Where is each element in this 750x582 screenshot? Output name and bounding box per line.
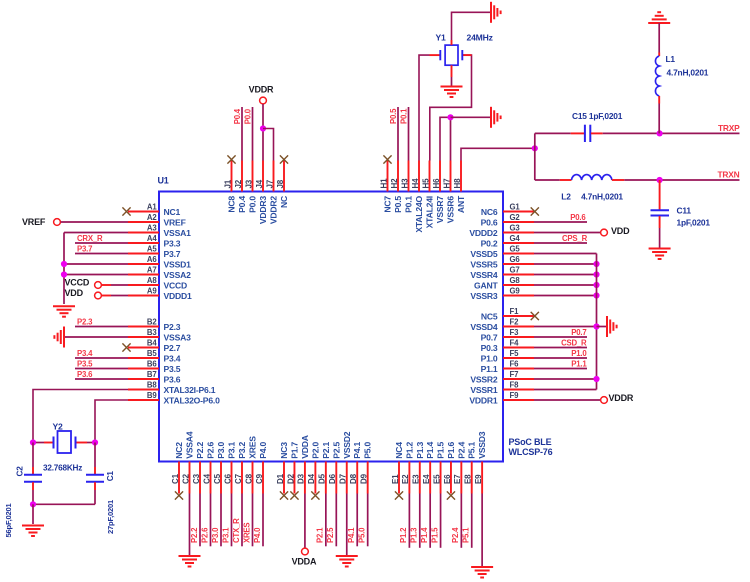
svg-text:H1: H1 [379, 178, 388, 189]
svg-text:D2: D2 [286, 473, 295, 484]
svg-text:E3: E3 [412, 474, 421, 484]
svg-text:P2.1: P2.1 [316, 527, 325, 543]
svg-text:P5.1: P5.1 [462, 527, 471, 543]
svg-text:P0.4: P0.4 [233, 108, 242, 124]
svg-text:P2.2: P2.2 [190, 527, 199, 543]
svg-text:VDD: VDD [611, 226, 630, 236]
svg-text:D8: D8 [349, 473, 358, 484]
svg-text:C2: C2 [16, 466, 25, 477]
svg-text:WLCSP-76: WLCSP-76 [509, 447, 553, 457]
svg-text:H4: H4 [411, 178, 420, 189]
svg-text:P1.2: P1.2 [404, 442, 414, 459]
svg-text:VSSA1: VSSA1 [164, 228, 192, 238]
svg-text:VSSR2: VSSR2 [470, 374, 498, 384]
svg-text:F6: F6 [510, 360, 520, 369]
svg-text:VDDR: VDDR [609, 393, 634, 403]
svg-text:P1.1: P1.1 [571, 359, 587, 368]
svg-text:VSSD3: VSSD3 [477, 431, 487, 459]
svg-text:24MHz: 24MHz [467, 33, 493, 43]
svg-text:C1: C1 [171, 473, 180, 484]
svg-text:P2.5: P2.5 [331, 442, 341, 459]
svg-text:J4: J4 [255, 179, 264, 188]
svg-text:C7: C7 [234, 473, 243, 484]
svg-text:NC1: NC1 [164, 207, 181, 217]
svg-text:NC: NC [279, 196, 289, 208]
svg-text:Y1: Y1 [436, 33, 447, 43]
svg-text:VSSD5: VSSD5 [470, 249, 498, 259]
svg-text:P3.0: P3.0 [211, 527, 220, 543]
svg-text:A8: A8 [147, 276, 157, 285]
svg-text:D3: D3 [297, 473, 306, 484]
svg-text:XRES: XRES [242, 523, 251, 543]
svg-text:P3.6: P3.6 [164, 374, 181, 384]
svg-text:J8: J8 [276, 179, 285, 188]
svg-text:G8: G8 [510, 276, 521, 285]
svg-text:G6: G6 [510, 255, 521, 264]
svg-text:C8: C8 [244, 473, 253, 484]
svg-text:B2: B2 [147, 318, 157, 327]
svg-text:E7: E7 [453, 474, 462, 484]
svg-text:VSSA2: VSSA2 [164, 270, 192, 280]
svg-text:XRES: XRES [248, 436, 258, 459]
svg-text:P1.3: P1.3 [410, 527, 419, 543]
svg-text:B8: B8 [147, 381, 157, 390]
svg-text:F1: F1 [510, 307, 520, 316]
svg-text:C1: C1 [106, 471, 115, 482]
svg-text:C4: C4 [202, 473, 211, 484]
svg-text:NC6: NC6 [481, 207, 498, 217]
svg-text:CSD_R: CSD_R [561, 338, 587, 347]
svg-text:G7: G7 [510, 266, 520, 275]
svg-text:P2.4: P2.4 [456, 442, 466, 459]
svg-text:P0.7: P0.7 [571, 328, 586, 337]
svg-text:L2: L2 [561, 191, 571, 201]
svg-text:J2: J2 [234, 179, 243, 188]
svg-text:VSSD4: VSSD4 [470, 322, 498, 332]
svg-text:H7: H7 [442, 178, 451, 189]
svg-text:27pF,0201: 27pF,0201 [106, 499, 115, 534]
svg-text:P3.7: P3.7 [77, 244, 92, 253]
svg-text:F9: F9 [510, 391, 520, 400]
svg-text:P3.1: P3.1 [227, 442, 237, 459]
svg-text:P3.4: P3.4 [77, 349, 93, 358]
svg-text:F4: F4 [510, 339, 520, 348]
svg-text:P1.0: P1.0 [481, 353, 498, 363]
svg-text:1pF,0201: 1pF,0201 [677, 218, 711, 228]
svg-text:E4: E4 [422, 474, 431, 484]
svg-text:P0.0: P0.0 [248, 196, 258, 213]
svg-text:VDDR2: VDDR2 [269, 196, 279, 225]
svg-text:XTAL32I-P6.1: XTAL32I-P6.1 [164, 385, 216, 395]
svg-text:J3: J3 [244, 179, 253, 188]
svg-text:P2.3: P2.3 [77, 317, 93, 326]
svg-text:P3.6: P3.6 [77, 370, 93, 379]
svg-text:32.768KHz: 32.768KHz [43, 464, 82, 473]
svg-text:4.7nH,0201: 4.7nH,0201 [667, 68, 709, 78]
svg-text:D4: D4 [307, 473, 316, 484]
svg-text:NC2: NC2 [174, 442, 184, 459]
svg-text:CTX_R: CTX_R [232, 518, 241, 543]
svg-text:P0.4: P0.4 [237, 196, 247, 213]
svg-text:P5.1: P5.1 [467, 442, 477, 459]
svg-text:4.7nH,0201: 4.7nH,0201 [581, 191, 623, 201]
svg-text:P0.5: P0.5 [393, 196, 403, 213]
svg-text:P5.0: P5.0 [357, 527, 366, 543]
svg-text:B9: B9 [147, 391, 157, 400]
svg-text:NC5: NC5 [481, 311, 498, 321]
svg-text:B5: B5 [147, 349, 157, 358]
svg-text:P0.6: P0.6 [570, 213, 586, 222]
svg-text:H3: H3 [400, 178, 409, 189]
svg-text:P3.0: P3.0 [216, 442, 226, 459]
svg-text:A1: A1 [147, 203, 157, 212]
svg-text:A5: A5 [147, 245, 157, 254]
svg-text:P2.1: P2.1 [321, 442, 331, 459]
svg-text:P4.1: P4.1 [347, 527, 356, 543]
svg-text:P0.5: P0.5 [389, 108, 398, 124]
svg-text:B7: B7 [147, 370, 157, 379]
svg-text:P0.3: P0.3 [481, 343, 498, 353]
svg-text:H6: H6 [432, 178, 441, 189]
svg-text:A2: A2 [147, 213, 157, 222]
svg-text:VREF: VREF [164, 217, 186, 227]
svg-text:P2.6: P2.6 [200, 527, 209, 543]
svg-text:C11: C11 [677, 206, 692, 216]
svg-text:C9: C9 [255, 473, 264, 484]
svg-text:H2: H2 [390, 178, 399, 189]
svg-text:P3.1: P3.1 [221, 527, 230, 543]
svg-text:G4: G4 [510, 234, 521, 243]
svg-text:P2.4: P2.4 [451, 527, 460, 543]
svg-text:VSSR6: VSSR6 [446, 196, 456, 224]
svg-text:VSSR4: VSSR4 [470, 270, 498, 280]
svg-text:F8: F8 [510, 381, 520, 390]
svg-text:D9: D9 [359, 473, 368, 484]
svg-text:CRX_R: CRX_R [77, 234, 103, 243]
svg-text:J1: J1 [223, 179, 232, 188]
svg-text:CPS_R: CPS_R [562, 234, 588, 243]
svg-text:P1.4: P1.4 [420, 527, 429, 543]
svg-text:VDDD1: VDDD1 [164, 291, 193, 301]
svg-text:J7: J7 [265, 179, 274, 188]
svg-text:56pF,0201: 56pF,0201 [4, 502, 13, 537]
svg-text:Y2: Y2 [53, 422, 64, 432]
svg-text:B6: B6 [147, 360, 157, 369]
svg-text:VDDA: VDDA [300, 435, 310, 459]
svg-text:VDDR1: VDDR1 [469, 395, 498, 405]
svg-text:PSoC BLE: PSoC BLE [509, 437, 552, 447]
svg-text:D1: D1 [276, 473, 285, 484]
svg-text:VDDD2: VDDD2 [469, 228, 498, 238]
svg-text:P5.0: P5.0 [363, 442, 373, 459]
svg-text:E1: E1 [391, 474, 400, 484]
svg-text:VSSR3: VSSR3 [470, 291, 498, 301]
svg-text:NC8: NC8 [227, 196, 237, 213]
svg-text:E2: E2 [401, 474, 410, 484]
svg-text:C5: C5 [213, 473, 222, 484]
svg-text:P3.7: P3.7 [164, 249, 181, 259]
svg-text:VSSR1: VSSR1 [470, 385, 498, 395]
svg-text:E5: E5 [432, 474, 441, 484]
svg-text:G1: G1 [510, 203, 521, 212]
svg-text:C6: C6 [223, 473, 232, 484]
svg-text:G2: G2 [510, 213, 521, 222]
svg-text:P4.0: P4.0 [258, 442, 268, 459]
svg-text:P3.3: P3.3 [164, 238, 181, 248]
svg-text:VCCD: VCCD [164, 280, 188, 290]
svg-text:P2.0: P2.0 [310, 442, 320, 459]
svg-text:VDDR3: VDDR3 [258, 196, 268, 225]
svg-text:P2.2: P2.2 [195, 442, 205, 459]
svg-text:XTAL32O-P6.0: XTAL32O-P6.0 [164, 395, 221, 405]
svg-text:U1: U1 [158, 176, 169, 186]
svg-text:P1.5: P1.5 [430, 527, 439, 543]
svg-text:VREF: VREF [22, 217, 46, 227]
svg-text:F2: F2 [510, 318, 520, 327]
svg-text:F3: F3 [510, 328, 520, 337]
svg-text:C3: C3 [192, 473, 201, 484]
svg-text:P2.7: P2.7 [164, 343, 181, 353]
svg-text:D7: D7 [339, 473, 348, 484]
svg-text:P1.7: P1.7 [289, 442, 299, 459]
svg-text:P0.1: P0.1 [399, 108, 408, 124]
svg-text:D6: D6 [328, 473, 337, 484]
svg-text:P1.4: P1.4 [425, 442, 435, 459]
svg-text:L1: L1 [666, 54, 676, 64]
svg-text:E8: E8 [464, 474, 473, 484]
svg-text:P1.2: P1.2 [399, 527, 408, 543]
svg-text:NC3: NC3 [279, 442, 289, 459]
svg-text:NC7: NC7 [383, 196, 393, 213]
svg-text:P2.5: P2.5 [326, 527, 335, 543]
svg-text:VSSA3: VSSA3 [164, 332, 192, 342]
svg-text:P1.5: P1.5 [436, 442, 446, 459]
svg-text:VSSD2: VSSD2 [342, 431, 352, 459]
svg-text:P1.6: P1.6 [446, 442, 456, 459]
svg-text:P0.6: P0.6 [481, 217, 498, 227]
svg-text:VCCD: VCCD [65, 277, 90, 287]
svg-text:C15 1pF,0201: C15 1pF,0201 [572, 111, 623, 121]
svg-text:ANT: ANT [456, 195, 466, 213]
svg-text:P4.0: P4.0 [253, 527, 262, 543]
svg-text:VDD: VDD [65, 288, 84, 298]
svg-text:A7: A7 [147, 266, 157, 275]
svg-text:G3: G3 [510, 224, 521, 233]
svg-text:E9: E9 [474, 474, 483, 484]
svg-text:P3.5: P3.5 [164, 364, 181, 374]
svg-text:VSSR7: VSSR7 [435, 196, 445, 224]
svg-text:B4: B4 [147, 339, 157, 348]
svg-text:P3.5: P3.5 [77, 359, 93, 368]
svg-text:A3: A3 [147, 224, 157, 233]
svg-text:A6: A6 [147, 255, 157, 264]
svg-text:P3.2: P3.2 [237, 442, 247, 459]
svg-text:VDDR: VDDR [249, 85, 274, 95]
svg-text:P1.3: P1.3 [415, 442, 425, 459]
svg-text:F5: F5 [510, 349, 520, 358]
svg-text:P2.6: P2.6 [206, 442, 216, 459]
svg-text:P3.4: P3.4 [164, 353, 181, 363]
svg-text:P0.7: P0.7 [481, 332, 498, 342]
svg-text:G9: G9 [510, 287, 521, 296]
svg-text:B3: B3 [147, 328, 157, 337]
svg-text:F7: F7 [510, 370, 519, 379]
svg-text:C2: C2 [181, 473, 190, 484]
svg-text:E6: E6 [443, 474, 452, 484]
svg-text:TRXN: TRXN [718, 170, 740, 180]
svg-text:P1.1: P1.1 [481, 364, 498, 374]
svg-text:H5: H5 [421, 178, 430, 189]
svg-text:VDDA: VDDA [292, 556, 317, 566]
svg-text:A4: A4 [147, 234, 157, 243]
svg-text:D5: D5 [318, 473, 327, 484]
svg-text:A9: A9 [147, 287, 157, 296]
svg-text:P0.0: P0.0 [243, 108, 252, 124]
svg-text:P0.1: P0.1 [404, 196, 414, 213]
svg-text:GANT: GANT [474, 280, 498, 290]
svg-text:TRXP: TRXP [718, 123, 740, 133]
svg-text:VSSA4: VSSA4 [185, 431, 195, 459]
svg-text:H8: H8 [453, 178, 462, 189]
svg-text:P0.2: P0.2 [481, 238, 498, 248]
svg-text:G5: G5 [510, 245, 521, 254]
svg-text:XTAL24I: XTAL24I [425, 196, 435, 228]
svg-text:P1.0: P1.0 [571, 349, 587, 358]
svg-text:XTAL24O: XTAL24O [414, 195, 424, 232]
svg-text:P2.3: P2.3 [164, 322, 181, 332]
svg-text:NC4: NC4 [394, 442, 404, 459]
svg-text:VSSD1: VSSD1 [164, 259, 192, 269]
svg-text:P4.1: P4.1 [352, 442, 362, 459]
svg-text:VSSR5: VSSR5 [470, 259, 498, 269]
